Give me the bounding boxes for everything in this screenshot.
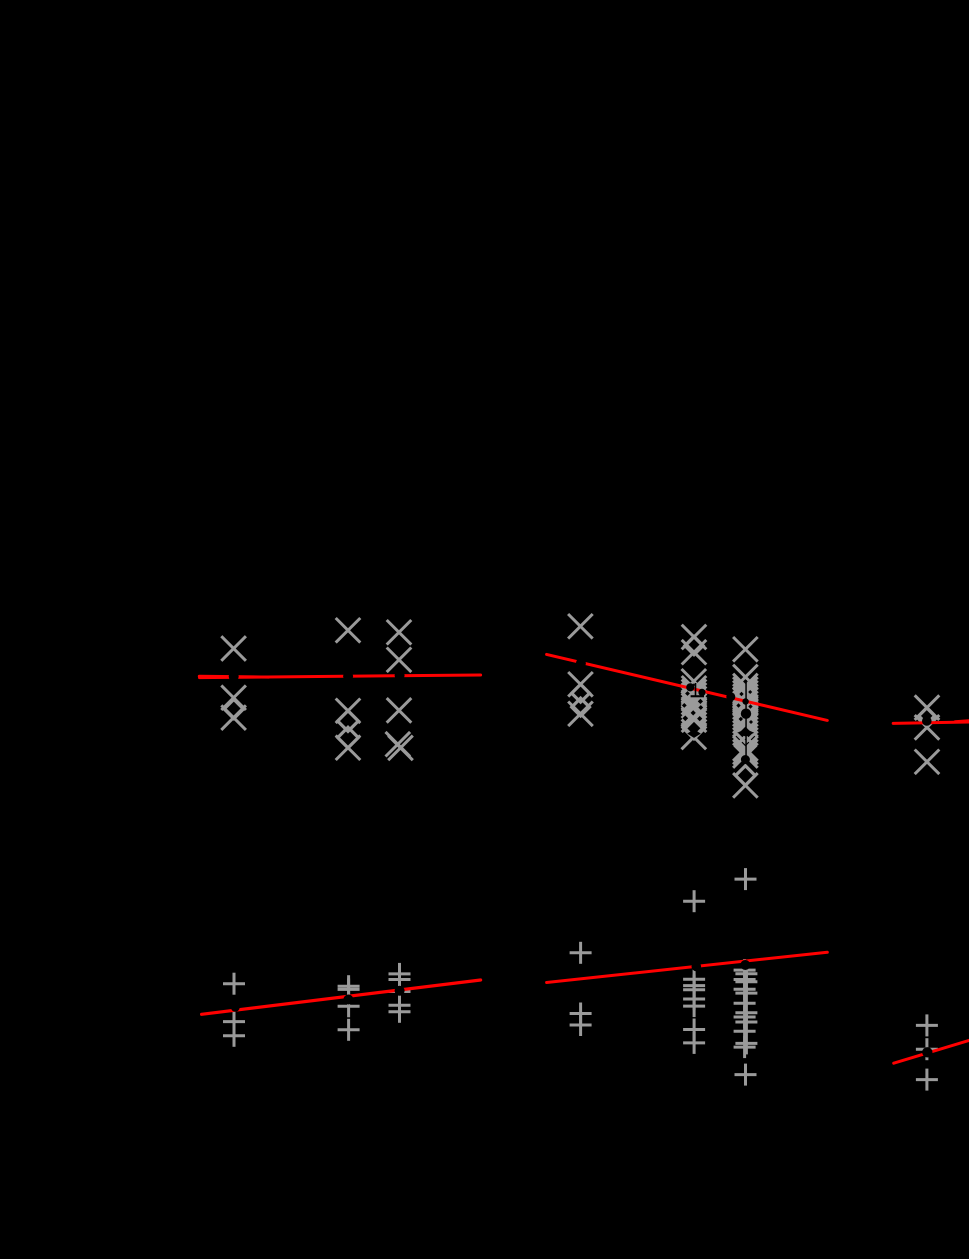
red fit line: + series left panel	[202, 980, 481, 1014]
hidden black markers col6 X cluster	[726, 692, 735, 701]
red fit line: X series left panel	[199, 675, 268, 679]
grey X/diamond markers: X-series column 2	[336, 618, 361, 643]
grey + markers: +-series column 5	[683, 890, 705, 912]
hidden black marker notching +-line col6	[740, 960, 750, 970]
grey + markers: +-series column 1	[223, 973, 245, 995]
hidden black markers fragmenting X-line col5	[686, 683, 694, 691]
texture holes col6	[737, 729, 754, 737]
red fit line: + series middle panel	[547, 952, 828, 982]
grey + markers: +-series column 6	[735, 868, 757, 890]
grey X/diamond markers: X-series column 6	[733, 637, 758, 662]
red fit line: + series right panel	[894, 1040, 969, 1063]
grey X/diamond markers: X-series column 5	[682, 625, 707, 650]
red fit line: X series middle panel	[547, 654, 828, 720]
hidden black marker cutting X-line col2	[343, 671, 353, 681]
hidden black marker cutting X-line col1	[229, 671, 239, 681]
grey + markers: +-series column 4	[570, 942, 592, 964]
grey + markers: +-series column 7	[916, 1014, 938, 1036]
hidden black marker cutting +-line col7	[922, 1047, 932, 1057]
hidden black marker cutting X-line col3	[395, 670, 405, 680]
red fit line: X series right panel	[893, 722, 969, 723]
hidden black marker cutting +-line col3	[395, 986, 405, 996]
grey X markers: X-series column 3	[387, 620, 412, 645]
hidden black marker below +-line col2	[343, 995, 353, 1005]
hidden black marker cutting X-line col7	[922, 716, 932, 726]
texture holes col5	[685, 691, 690, 696]
grey X/diamond markers: X-series column 1	[221, 636, 246, 661]
hidden black marker cutting X-line col4	[576, 658, 586, 668]
hidden black marker cutting +-line col1	[231, 1003, 240, 1012]
grey X/diamond markers: X-series column 7	[915, 695, 940, 720]
hidden black marker cutting +-line col5	[692, 962, 702, 972]
grey X/diamond markers: X-series column 4	[568, 614, 593, 639]
grey + markers: +-series column 2	[338, 975, 360, 997]
grey + markers: +-series column 3	[389, 963, 411, 985]
